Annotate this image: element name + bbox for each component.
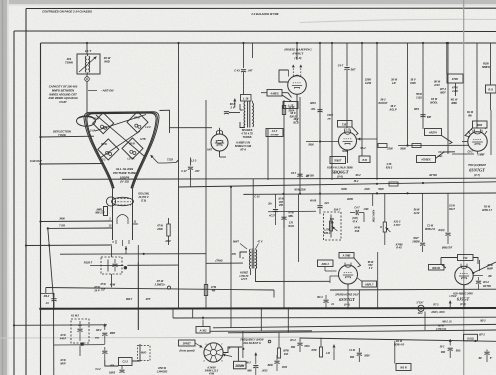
capacitor c bottom mid <box>253 353 258 375</box>
wire x26 vertical lower <box>0 0 1 1</box>
resistor box SPRET <box>179 340 196 346</box>
wire neck pin down x126 <box>125 246 127 254</box>
label 470K 2W <box>451 87 459 94</box>
wire x372 short <box>372 194 374 206</box>
wire drop x320 <box>319 42 321 194</box>
svg-text:C1-2: C1-2 <box>122 361 128 364</box>
svg-text:W1-2: W1-2 <box>483 281 489 284</box>
wire neck base to box <box>111 246 113 287</box>
width coil L2-T box <box>77 54 100 74</box>
capacitor on x320 <box>317 110 322 112</box>
vertical resistor crt bias <box>167 218 170 245</box>
rotated label 370K <box>372 210 375 223</box>
svg-text:MWT: MWT <box>233 241 239 244</box>
svg-text:4 MEG: 4 MEG <box>269 91 278 95</box>
horiz osc transformer left coil <box>249 249 250 269</box>
scan crease top right <box>300 19 496 22</box>
svg-text:56 W: 56 W <box>414 209 420 212</box>
svg-text:C4-2: C4-2 <box>95 368 101 371</box>
label wp-2 br <box>478 334 493 361</box>
deflection coil diamond bottom-left <box>98 139 119 160</box>
picture tube bell outline mid <box>86 113 158 189</box>
svg-text:47 W: 47 W <box>99 283 106 286</box>
wire x359 seg low <box>358 290 360 308</box>
svg-text:3 V: 3 V <box>369 267 373 270</box>
svg-text:R1-W: R1-W <box>484 206 491 209</box>
wire trans left lead <box>240 252 247 258</box>
dashed box hold control <box>324 212 342 240</box>
label 40-7 grid <box>326 114 333 121</box>
svg-text:(from panel): (from panel) <box>180 349 195 353</box>
label 46-99 cap <box>309 200 329 206</box>
svg-text:10 W: 10 W <box>60 334 66 337</box>
wire x191 buses <box>190 179 192 187</box>
svg-text:LF3T: LF3T <box>241 278 247 281</box>
label c4-7 mid <box>354 207 369 212</box>
svg-text:2 QU: 2 QU <box>415 97 422 100</box>
wire tube plate right <box>357 137 378 140</box>
svg-text:56/7: 56/7 <box>351 69 356 72</box>
horiz osc transformer right coil <box>256 250 257 269</box>
svg-text:C4-7: C4-7 <box>338 65 344 68</box>
label x377 col <box>379 99 388 106</box>
svg-text:2W 500: 2W 500 <box>482 286 492 288</box>
resistor box 710 <box>458 255 474 261</box>
wire tube right diag <box>472 262 496 274</box>
wire right edge drop <box>490 43 492 110</box>
label horiz output <box>327 167 353 179</box>
label a7468 pair <box>394 244 403 250</box>
wire vert x178 long <box>177 42 179 309</box>
svg-text:A23: A23 <box>323 202 329 205</box>
label c-10 mid <box>254 196 260 199</box>
wire vert x423 mid <box>422 42 424 129</box>
label sparks note <box>240 128 253 139</box>
svg-text:47 W: 47 W <box>156 225 163 228</box>
svg-text:71WH: 71WH <box>65 61 74 65</box>
label hv point right of neck <box>137 193 149 203</box>
svg-text:1.MF: 1.MF <box>363 209 369 211</box>
svg-text:HTB: HTB <box>140 138 145 141</box>
wire yoke feed left <box>39 136 94 138</box>
svg-text:46-99: 46-99 <box>309 200 317 203</box>
svg-text:A1-7: A1-7 <box>271 130 278 133</box>
note text capacity block <box>47 85 78 105</box>
wire hv tube bottom <box>220 151 227 157</box>
label 43w below box <box>109 284 116 287</box>
wire vert x206 <box>205 100 207 308</box>
wire A7MB diag <box>354 258 361 267</box>
label c4-2 bottom <box>95 368 115 375</box>
svg-text:2200: 2200 <box>363 188 370 191</box>
neck pin stub 2 <box>105 217 113 221</box>
svg-text:MWP: MWP <box>487 268 493 271</box>
vert resistor x206 low <box>204 285 216 296</box>
svg-text:C9-7: C9-7 <box>291 172 297 175</box>
solid contact dot <box>124 266 127 269</box>
main frame left vertical <box>40 43 42 375</box>
picture tube bell outline outer <box>84 112 159 189</box>
resistor box 700EX <box>417 156 436 163</box>
label NM-2 <box>44 295 50 305</box>
svg-text:2x3V: 2x3V <box>413 212 420 215</box>
svg-text:34-W: 34-W <box>354 227 360 230</box>
svg-text:4 TO 4.75: 4 TO 4.75 <box>240 131 253 135</box>
label damping diode <box>283 48 312 60</box>
svg-text:7 OR: 7 OR <box>59 225 65 228</box>
svg-text:JW 500: JW 500 <box>429 175 438 177</box>
svg-text:500|: 500| <box>456 351 461 353</box>
svg-text:WW-7: WW-7 <box>126 299 133 301</box>
resistor left of neck <box>104 207 108 216</box>
wire x138 lower <box>137 262 139 330</box>
svg-text:R7-W: R7-W <box>157 280 164 283</box>
label top middle balance <box>250 12 278 16</box>
svg-text:500V: 500V <box>364 356 370 358</box>
wire bl bottom h <box>54 344 105 346</box>
label flw-out <box>30 159 42 163</box>
label 42-7 adj <box>416 301 424 315</box>
wire drop x243 top <box>242 42 244 68</box>
svg-text:M2-2: M2-2 <box>480 321 486 323</box>
svg-text:C-10: C-10 <box>254 196 260 199</box>
label 270k stack <box>351 217 360 233</box>
wire damper left loop <box>279 70 289 82</box>
svg-text:R1(2): R1(2) <box>439 229 445 232</box>
label L-16 box <box>241 95 252 102</box>
label ww-7 pair <box>126 299 151 301</box>
label from panel <box>180 349 195 353</box>
label C-43 <box>234 70 253 73</box>
wire x480 seg2 <box>479 260 481 271</box>
label y175 row a <box>306 176 315 178</box>
svg-text:R117: R117 <box>449 208 455 211</box>
svg-text:250: 250 <box>278 204 284 207</box>
label -8 socket <box>228 347 231 350</box>
svg-text:ABE 2: ABE 2 <box>321 263 330 266</box>
svg-text:5600: 5600 <box>378 188 384 191</box>
svg-text:30r: 30r <box>330 223 334 225</box>
label 68 P <box>229 102 235 110</box>
svg-text:MBL: MBL <box>288 215 294 218</box>
label 10w mvp <box>60 359 66 366</box>
wire x54 down <box>48 228 54 375</box>
svg-text:46 V: 46 V <box>292 118 298 121</box>
wire y265 socket row <box>90 264 179 266</box>
label y190 rowc <box>294 190 306 192</box>
wire tube bottom to bus <box>330 276 348 308</box>
wire y145 to 6SN7 <box>398 144 468 146</box>
label 47v right <box>256 241 263 250</box>
svg-text:3"GA": 3"GA" <box>416 301 424 304</box>
svg-text:46-2: 46-2 <box>245 362 251 365</box>
svg-text:C8-2: C8-2 <box>438 151 444 154</box>
svg-text:2r2V: 2r2V <box>433 83 440 87</box>
svg-text:16MH: 16MH <box>235 364 245 368</box>
resistor box ABE2 <box>318 260 334 267</box>
bus line y178.5 <box>62 178 496 179</box>
capacitor h cap x356 <box>350 210 364 222</box>
label 460v top <box>450 295 457 298</box>
resistor box R-86 <box>330 157 346 164</box>
svg-text:4W: 4W <box>211 290 216 293</box>
label 41-2 gun <box>440 88 447 95</box>
wire x261 lower <box>260 308 262 331</box>
wire osc feed y263 <box>206 260 243 264</box>
label 12w 500b <box>290 112 297 119</box>
svg-text:7065T: 7065T <box>334 160 342 163</box>
svg-text:55 W: 55 W <box>416 93 422 96</box>
label 4.7k right col <box>449 205 455 212</box>
wire y154 segs <box>452 153 474 155</box>
wire x448 mid <box>447 42 449 154</box>
label 50v 160v <box>482 62 490 70</box>
wire anode lead <box>158 162 176 165</box>
wire x425 lower <box>424 312 426 331</box>
svg-text:L2-0: L2-0 <box>145 126 151 129</box>
bus line y337.5 <box>300 338 496 342</box>
svg-text:(V-7): (V-7) <box>474 173 480 177</box>
label width coil left <box>65 57 74 65</box>
label width coil right <box>104 56 111 64</box>
svg-text:COAT: COAT <box>59 100 67 104</box>
svg-text:L2-1A: L2-1A <box>128 158 135 161</box>
label yoke top-right <box>134 117 151 130</box>
svg-text:MVO: MVO <box>141 353 146 355</box>
svg-text:C4-7: C4-7 <box>354 207 360 210</box>
svg-text:A-302: A-302 <box>199 329 207 332</box>
svg-text:L-16: L-16 <box>243 96 249 100</box>
wire y228 to neck <box>47 227 113 229</box>
wire 710 frame <box>441 258 478 269</box>
svg-text:6SN7GT: 6SN7GT <box>469 168 485 173</box>
svg-text:2-0 BALANCE W FRE: 2-0 BALANCE W FRE <box>250 12 278 16</box>
label vert output text <box>334 293 359 306</box>
wire tube left y141 <box>319 140 339 142</box>
label x448 col <box>450 99 458 106</box>
label 2.2k right <box>0 0 1 1</box>
capacitor x319 small <box>317 194 322 214</box>
svg-text:STURW: STURW <box>271 134 280 136</box>
label x450 cap <box>439 347 461 355</box>
wire width coil to top bus <box>86 42 88 54</box>
svg-text:7W0 (1/2)6SN7: 7W0 (1/2)6SN7 <box>468 163 486 167</box>
svg-text:R7-2: R7-2 <box>433 304 439 307</box>
resistor box WR80 <box>429 265 445 271</box>
svg-text:39 W: 39 W <box>391 78 398 82</box>
wire vert x231 <box>230 186 232 308</box>
svg-text:(V-8): (V-8) <box>337 175 343 179</box>
wire vert x332 <box>331 42 333 180</box>
label small e <box>380 227 382 229</box>
label S6-2 5600 <box>342 147 406 153</box>
socket circle <box>204 343 223 362</box>
svg-text:NOW: NOW <box>342 151 348 153</box>
svg-text:MC-2: MC-2 <box>317 297 323 299</box>
capacitor x300 bottom <box>297 338 302 352</box>
label wow 5600 row <box>341 188 384 191</box>
svg-text:.001: .001 <box>311 108 316 111</box>
wire vert x300 mid <box>299 97 301 193</box>
svg-text:A31-2: A31-2 <box>393 221 401 224</box>
wire bus to damper zone <box>296 42 298 60</box>
socket spokes <box>205 344 223 362</box>
svg-text:(V-6): (V-6) <box>460 302 466 306</box>
svg-text:2200: 2200 <box>386 148 393 151</box>
svg-text:WF2: WF2 <box>414 108 420 111</box>
svg-text:(V-9): (V-9) <box>294 56 301 60</box>
flyback transformer secondary <box>252 103 255 127</box>
label c8-2 mfp <box>482 281 492 288</box>
solid square bl <box>81 343 84 346</box>
svg-text:W8-2 .01: W8-2 .01 <box>442 322 452 324</box>
svg-text:NOW: NOW <box>341 189 347 191</box>
wire damper down <box>296 100 298 122</box>
svg-text:6BQ6GT: 6BQ6GT <box>331 170 348 175</box>
svg-text:W7-2: W7-2 <box>440 88 447 91</box>
label e-4wd <box>242 258 244 260</box>
svg-text:ADJ: ADJ <box>417 312 423 315</box>
svg-text:713X: 713X <box>167 158 173 162</box>
label 47w 24p <box>93 286 100 293</box>
svg-text:#C17: #C17 <box>269 215 275 218</box>
picture tube neck left <box>112 189 114 240</box>
wire x231 to socket zone <box>230 308 232 327</box>
wire spret to socket <box>195 343 203 348</box>
svg-text:L1F: L1F <box>326 353 331 355</box>
capacitor x487 bottom <box>484 350 489 363</box>
svg-text:C1-12: C1-12 <box>344 130 351 132</box>
svg-text:S8-2: S8-2 <box>355 174 361 177</box>
dashed box brightness <box>101 257 122 274</box>
label x359 cap <box>349 350 370 359</box>
svg-text:C-43: C-43 <box>234 70 240 73</box>
label horiz osc trans <box>240 272 249 282</box>
wire vert x408 mid <box>406 43 408 147</box>
label L27K r30 <box>324 229 331 236</box>
svg-text:2 V: 2 V <box>229 106 234 110</box>
svg-text:98 W: 98 W <box>434 80 441 84</box>
svg-text:444 P: 444 P <box>59 338 67 341</box>
svg-text:30LB: 30LB <box>288 225 294 228</box>
label 55w 2qu <box>415 93 422 100</box>
flyback core <box>248 101 250 128</box>
svg-text:AGLP: AGLP <box>388 108 396 112</box>
svg-text:2PURD HORIZ 24LF: 2PURD HORIZ 24LF <box>334 293 359 296</box>
svg-text:(V-4): (V-4) <box>344 303 350 307</box>
wire width coil down to yoke <box>86 81 88 117</box>
wire x422 down <box>422 193 424 242</box>
label 4.7meg bottom <box>435 325 446 332</box>
capacitor on x300 <box>291 172 309 178</box>
label R105-7 <box>84 261 93 265</box>
bus line y184 <box>179 182 496 187</box>
bus line y193.5 <box>243 192 496 195</box>
svg-text:170: 170 <box>289 222 294 225</box>
svg-text:0033: 0033 <box>304 346 310 348</box>
label x464 col2 <box>467 111 474 118</box>
wire R92 diag to tube <box>465 128 473 137</box>
border line outer left vertical <box>25 9 27 375</box>
anode arrow into bell <box>151 155 159 163</box>
label R4(2) cap <box>439 229 453 250</box>
svg-text:68P: 68P <box>427 116 432 119</box>
resistor box A7MB <box>339 253 354 259</box>
label hv filament <box>216 141 223 144</box>
picture tube neck right <box>132 189 134 240</box>
resistor box 470K <box>447 74 463 83</box>
bus line y327.5 <box>213 324 496 327</box>
svg-text:JW 500: JW 500 <box>306 176 315 178</box>
svg-text:2.2W: 2.2W <box>451 90 458 93</box>
label 26r 250 <box>267 203 283 218</box>
wire x80 to bottom <box>79 346 81 356</box>
svg-text:7LB: 7LB <box>362 159 367 162</box>
label frequency adjust <box>240 339 270 345</box>
label hw-2 label <box>71 315 80 318</box>
bus line y289.5 right <box>330 288 496 291</box>
wire y221 to neck <box>39 220 112 222</box>
label C4-7 56 <box>338 65 356 72</box>
svg-text:WID: WID <box>104 60 110 64</box>
label 3.3k flyback <box>283 351 289 357</box>
label vert sweep text <box>453 293 473 307</box>
svg-text:10 W: 10 W <box>60 359 66 362</box>
svg-text:#30A 370K: #30A 370K <box>372 210 375 223</box>
yoke cross wire 2 <box>96 115 144 156</box>
label A31-2 4701 <box>385 163 392 170</box>
svg-text:68 P: 68 P <box>230 102 236 106</box>
svg-text:51 W: 51 W <box>449 205 455 208</box>
svg-text:68 W: 68 W <box>129 143 135 146</box>
label 30k-7 pot <box>330 209 341 225</box>
wire tube to anpl <box>358 278 363 282</box>
svg-text:L7G/V: L7G/V <box>450 295 457 298</box>
resistor box R27 <box>425 129 442 136</box>
bus line y318 <box>173 316 496 319</box>
horiz output tube 6BQ6GT <box>339 130 357 154</box>
label 10-2 <box>95 329 116 340</box>
label picture tube <box>113 167 137 184</box>
svg-text:W2W: W2W <box>347 198 354 201</box>
svg-text:30A-7: 30A-7 <box>334 209 341 212</box>
dashed boxlet bottom left <box>138 346 151 361</box>
wire drop x362 <box>361 42 363 156</box>
label 470k 56w <box>482 206 493 213</box>
label mwt left <box>233 241 247 250</box>
svg-text:L2-1: L2-1 <box>100 159 106 162</box>
wire hv horizontal y128 <box>160 110 213 133</box>
heater dashed lead 2 <box>299 65 302 77</box>
resistor box ANPL <box>362 281 377 287</box>
svg-text:C1-W: C1-W <box>349 350 356 352</box>
svg-text:2.2MEG+: 2.2MEG+ <box>154 284 166 287</box>
label 170v 30lb <box>288 222 294 229</box>
svg-text:56-2: 56-2 <box>380 99 386 102</box>
wire bus x377 drop <box>376 42 378 180</box>
svg-text:SPARKS: SPARKS <box>242 128 253 132</box>
scan crease line <box>0 336 300 339</box>
svg-text:L27K: L27K <box>324 229 330 232</box>
svg-text:R1-W: R1-W <box>467 111 474 114</box>
label 770r y228 <box>59 225 65 228</box>
svg-text:C1-W: C1-W <box>427 225 434 228</box>
wire hv rect plate <box>219 128 221 134</box>
svg-text:ADJ ADJUST G: ADJ ADJUST G <box>242 342 261 345</box>
bus junction dots y308 <box>137 307 379 310</box>
resistor box 16MH <box>234 361 247 369</box>
wire x491 seg <box>490 110 492 155</box>
